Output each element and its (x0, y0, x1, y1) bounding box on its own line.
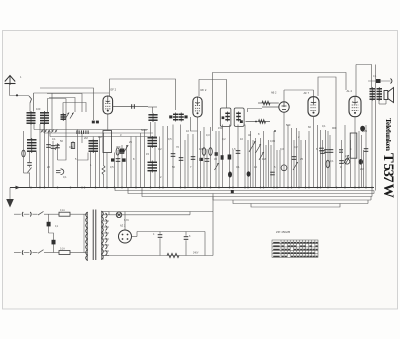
wire (244, 125, 246, 188)
resistor R12 field coil (167, 253, 179, 257)
svg-text:100: 100 (199, 147, 204, 151)
capacitor C36 blob (92, 121, 95, 124)
tube V6 AZ1 rectifier (119, 230, 132, 243)
wire supply line 2 (128, 188, 374, 194)
fuse F 0.1A (59, 212, 70, 216)
wire (265, 145, 267, 188)
capacitor C14 (365, 125, 367, 188)
wire (250, 131, 252, 188)
wire U-loop b (78, 153, 89, 161)
mains plug connector (14, 252, 21, 254)
wire (154, 122, 156, 137)
capacitor C13 (341, 140, 343, 188)
resistor R20 oval (23, 131, 25, 173)
wire (355, 65, 357, 97)
wire AVC top line (213, 73, 347, 132)
jack J2 pickup (281, 165, 287, 171)
svg-text:0,2: 0,2 (294, 145, 298, 149)
potentiometer R7 volume (249, 141, 256, 152)
svg-text:0,3: 0,3 (280, 147, 284, 151)
trimmer C35 (70, 113, 74, 119)
resistor R21 variable (215, 163, 219, 170)
wire (237, 125, 239, 188)
capacitor C7 (179, 158, 184, 161)
resistor R2 stub (72, 141, 74, 149)
wire forest extras (36, 152, 38, 188)
wire (191, 117, 198, 131)
capacitor C6 (171, 154, 176, 157)
resistor R15 variable (345, 159, 350, 164)
wire (291, 128, 293, 188)
svg-text:0,2: 0,2 (222, 137, 226, 141)
svg-text:EF 2: EF 2 (111, 88, 117, 92)
capacitor C29 (339, 150, 343, 152)
wire (167, 126, 169, 188)
bus arrow marker (16, 186, 21, 190)
wire supply line 4 (213, 197, 371, 201)
wire (150, 122, 152, 137)
tube V4 AF7 (308, 97, 319, 117)
lamp dial 6.3V (116, 212, 122, 218)
wire band-switch bus c (50, 136, 157, 138)
capacitor C19 8uF (185, 232, 187, 236)
resistor R4 variable (126, 145, 128, 188)
wire headphone feed (368, 80, 391, 82)
wire (62, 103, 64, 115)
wire (189, 212, 191, 215)
wire (329, 135, 331, 188)
wire primary taps (84, 213, 88, 215)
wire anode line V1 (113, 106, 148, 108)
resistor R14 detector (258, 102, 279, 104)
wire (140, 133, 142, 188)
wire (260, 138, 262, 188)
wire (70, 252, 84, 254)
wire (135, 137, 137, 188)
capacitor C24 (292, 157, 297, 160)
switch mains (38, 211, 44, 215)
capacitor C41 blob (111, 158, 114, 161)
capacitor C48 blob (200, 158, 203, 161)
svg-text:ZPr 4502/B: ZPr 4502/B (276, 230, 290, 234)
svg-text:1M: 1M (262, 157, 266, 161)
wire (283, 90, 285, 102)
wire (172, 125, 174, 188)
wire (44, 252, 59, 254)
wire (30, 124, 32, 139)
wire supply line 3 (142, 188, 372, 197)
fuse F 0.1A (59, 251, 70, 255)
wire U-loop a (58, 99, 67, 161)
capacitor C23 blob (221, 155, 224, 160)
coil L2 antenna secondary (40, 111, 49, 125)
wire (248, 109, 263, 113)
wire grid-cap loop V1 (110, 79, 176, 110)
svg-text:Telefunken: Telefunken (384, 118, 393, 152)
svg-text:RF 2: RF 2 (201, 88, 207, 92)
svg-text:0,1A: 0,1A (60, 247, 65, 250)
wire (29, 103, 31, 112)
wire (262, 106, 279, 108)
wire (70, 213, 84, 215)
wire (107, 114, 109, 131)
capacitor C8 (192, 134, 194, 188)
wire AVC line (77, 130, 79, 188)
capacitor C42 blob (122, 158, 126, 161)
table cell text (273, 242, 318, 257)
wire (229, 125, 231, 188)
svg-text:2M: 2M (84, 136, 88, 140)
wire (150, 147, 152, 162)
capacitor C40 (86, 130, 88, 134)
svg-text:1,5: 1,5 (232, 147, 236, 151)
capacitor C39 (81, 130, 83, 134)
capacitor C37 blob (96, 121, 99, 124)
svg-text:150: 150 (218, 126, 223, 130)
wire nest d (63, 103, 86, 113)
capacitor C46 blob (240, 120, 243, 123)
wire (370, 197, 372, 201)
capacitor C2 (52, 141, 54, 188)
capacitor C27 (324, 150, 329, 153)
svg-text:0,05: 0,05 (270, 139, 276, 143)
svg-text:0,5: 0,5 (168, 137, 172, 141)
coil L11 IF2 secondary (236, 112, 241, 122)
wire (154, 147, 156, 162)
resistor R22 oval (326, 160, 330, 168)
coil L16 trimmer coil (61, 113, 67, 121)
svg-text:1M: 1M (98, 135, 102, 139)
coil L14 output transformer primary (370, 87, 376, 101)
wire anode loop V4 (318, 77, 336, 125)
wire (44, 213, 59, 215)
wire grid loop V2 (199, 80, 227, 109)
capacitor C12 (325, 130, 327, 188)
wire (313, 116, 315, 187)
wire (162, 126, 164, 188)
capacitor C44 blob (184, 115, 187, 118)
wire HT return (103, 255, 213, 257)
capacitor C1b (57, 143, 59, 160)
wire nest a (40, 88, 94, 120)
resistor R6 oval (210, 127, 212, 188)
wire (44, 124, 46, 188)
trimmer C34 (66, 113, 70, 119)
capacitor C18 4uF (159, 232, 161, 234)
wire (81, 133, 83, 143)
capacitor C45 blob (222, 116, 225, 119)
switch S3 arm (28, 168, 32, 173)
wire antenna line (10, 95, 30, 97)
transformer T1 power (36, 88, 396, 261)
tube V3 EB diode (279, 102, 289, 112)
wire B+ to output transformer (356, 65, 372, 89)
capacitor C38 (77, 130, 79, 134)
node junctions on bus (30, 187, 32, 189)
coil L10 IF2 primary (225, 112, 230, 122)
resistor R16 variable (259, 152, 264, 160)
capacitor C1 (48, 131, 50, 188)
wire (222, 125, 224, 188)
coil L6 oscillator 2 (148, 136, 158, 148)
speaker LS (384, 88, 394, 103)
potentiometer R18 blob (120, 149, 125, 153)
wire AVC drop (51, 93, 53, 131)
component value labels (36, 107, 368, 179)
wire coupling branch (48, 99, 67, 113)
wire (313, 90, 315, 97)
resistor R3 screen (box) (103, 131, 112, 153)
svg-text:0,1: 0,1 (63, 175, 67, 179)
capacitor C4 (117, 150, 119, 188)
wire screen feed (284, 89, 314, 91)
capacitor C10 (236, 151, 241, 154)
coil L5 oscillator 1 (148, 113, 157, 122)
capacitor C16 mains a (48, 214, 50, 233)
coil L7 oscillator 3 (148, 161, 158, 173)
coil L3 wave-band coil (27, 138, 37, 153)
wire HT rail (137, 231, 205, 233)
switch mains (38, 250, 44, 254)
wire heater line (109, 211, 213, 213)
wire nest b (47, 94, 82, 113)
coil L4 oscillator padding (89, 139, 99, 153)
svg-text:5000: 5000 (141, 128, 147, 132)
svg-text:0,2: 0,2 (158, 147, 162, 151)
wire (300, 140, 302, 188)
capacitor C17 mains b (49, 233, 54, 253)
wire (132, 236, 138, 238)
wire (152, 107, 154, 113)
shield can IF2 a (220, 108, 231, 126)
wire detector line 2 (246, 121, 271, 123)
wire (150, 172, 152, 188)
ground arrow (9, 188, 11, 200)
svg-text:300: 300 (116, 145, 121, 149)
svg-text:0,1: 0,1 (330, 159, 334, 163)
wire nest c (49, 98, 75, 113)
svg-text:AB 2: AB 2 (271, 92, 277, 95)
switch S2 wafer contacts (41, 130, 43, 132)
tuning gang symbol (56, 169, 64, 175)
svg-text:240V: 240V (193, 253, 199, 255)
wire (367, 200, 369, 204)
wire (335, 125, 337, 188)
svg-text:500: 500 (286, 123, 291, 127)
wire (305, 140, 307, 188)
capacitor C26 coupling (132, 104, 135, 109)
svg-text:0,1: 0,1 (322, 124, 326, 128)
tube V1 EF1 (103, 96, 113, 114)
capacitor C28 (329, 150, 334, 153)
wire (361, 135, 363, 188)
wire (375, 65, 377, 89)
wire (187, 134, 189, 188)
wire (378, 100, 380, 104)
resistor R10 grid leak (box) (350, 133, 357, 158)
wire (197, 117, 199, 188)
wire supply line 6 (251, 204, 340, 208)
wire (108, 212, 110, 215)
capacitor C11 (270, 145, 272, 188)
table voltage chart (272, 240, 318, 257)
capacitor C22 (205, 159, 210, 162)
svg-text:T 537 W: T 537 W (380, 153, 396, 199)
capacitor C33 electrolytic (247, 171, 251, 176)
wire (320, 130, 322, 188)
coil L9 IF1 secondary (179, 113, 184, 122)
capacitor C32 electrolytic (228, 172, 232, 178)
capacitor C15 blocking (376, 79, 381, 83)
capacitor C30 electrolytic (359, 159, 363, 165)
node switch contact (16, 94, 18, 96)
capacitor C5 (121, 145, 123, 188)
svg-text:AL 4: AL 4 (347, 89, 353, 93)
svg-text:AZ 1: AZ 1 (120, 225, 126, 228)
wire antenna lead-in (9, 84, 11, 96)
wire (154, 172, 156, 188)
resistor R19 squiggle (103, 133, 105, 166)
wire (90, 152, 92, 188)
svg-text:0,1A: 0,1A (60, 209, 65, 212)
capacitor C9 electrolytic (228, 155, 232, 160)
wire (215, 131, 217, 188)
wire (106, 153, 108, 188)
wire (373, 191, 375, 194)
jack J1 (391, 79, 393, 84)
wire grid feed (34, 92, 110, 94)
wire (180, 125, 182, 188)
svg-text:0,5: 0,5 (69, 145, 73, 149)
capacitor C47 (27, 163, 32, 166)
potentiometer R8 tone (256, 144, 261, 153)
wire (276, 150, 278, 188)
svg-text:0,1: 0,1 (236, 165, 240, 169)
wire dial lamp line (109, 214, 190, 216)
wire (371, 100, 373, 197)
wire (95, 152, 97, 188)
capacitor C49 blob (215, 152, 218, 156)
wire (204, 232, 206, 256)
wire band-switch bus b (44, 132, 153, 134)
wire (124, 212, 126, 231)
wire (29, 152, 31, 162)
resistor R9 variable (293, 162, 298, 170)
resistor R17 oval (116, 148, 119, 155)
wire main chassis bus (10, 187, 374, 189)
shield can IF2 b (234, 108, 244, 126)
wire (255, 138, 257, 188)
coil L1 antenna primary (27, 111, 36, 125)
wire B+ drop to PSU (212, 194, 214, 256)
coil L8 IF1 primary (173, 113, 178, 122)
node blob (231, 190, 234, 193)
wire (130, 137, 132, 188)
wire band-switch bus a (34, 129, 148, 131)
svg-text:0,1: 0,1 (52, 137, 56, 141)
wire (283, 112, 285, 187)
capacitor C43 blob (169, 115, 172, 118)
wire supply line 5 (233, 200, 368, 204)
mains plug connector (14, 213, 21, 215)
tube V5 AL4 (349, 96, 361, 116)
switch S1 arm (29, 96, 32, 103)
wire (354, 117, 356, 188)
wire (144, 130, 146, 188)
svg-text:900: 900 (332, 126, 337, 130)
wire (296, 128, 298, 188)
tube V2 ECH4 (193, 97, 202, 117)
capacitor C31 electrolytic (360, 126, 365, 132)
wire supply line 1 (115, 188, 374, 191)
svg-text:0,3: 0,3 (206, 133, 210, 137)
antenna A1 (5, 76, 16, 86)
svg-text:0,5: 0,5 (110, 165, 114, 169)
svg-text:2M: 2M (360, 167, 364, 171)
node dots extra (39, 187, 41, 189)
resistor R5 oval (203, 127, 205, 188)
coil L15 output transformer secondary (377, 87, 383, 101)
capacitor C25 (320, 151, 325, 154)
wire secondary taps (102, 211, 110, 213)
svg-text:100: 100 (36, 107, 41, 111)
resistor R11 variable (344, 155, 349, 163)
svg-text:0,25: 0,25 (362, 129, 368, 133)
wire (99, 137, 101, 188)
svg-text:AF 7: AF 7 (304, 91, 310, 95)
wire (102, 256, 104, 260)
